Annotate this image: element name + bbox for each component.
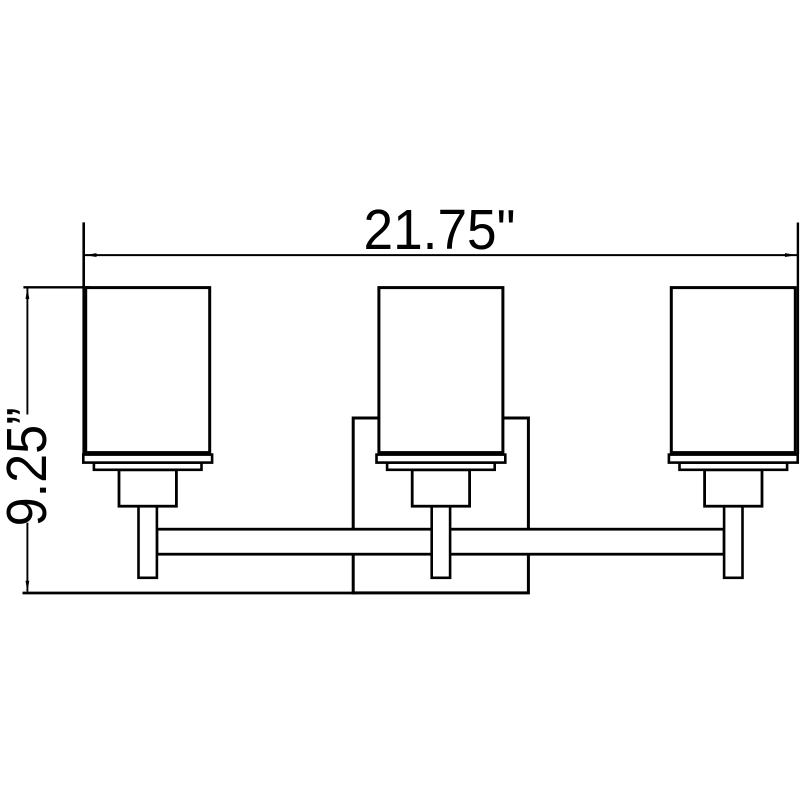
socket cup center [412, 470, 469, 506]
stem center [432, 506, 450, 578]
socket cup right [705, 470, 762, 506]
height dimension line upper segment [26, 289, 28, 415]
svg-text:21.75": 21.75" [364, 198, 516, 262]
width dimension extension line right [797, 223, 799, 455]
shade holder ring upper left [83, 455, 212, 463]
height dimension arrowhead top [26, 288, 30, 299]
height dimension line lower segment [26, 523, 28, 592]
glass shade center [379, 288, 503, 453]
shade holder ring upper right [669, 455, 798, 463]
shade holder ring lower right [680, 463, 788, 470]
backplate (wall mount plate) [353, 418, 528, 593]
socket cup left [119, 470, 176, 506]
stem left [139, 506, 157, 578]
glass shade left [86, 288, 210, 453]
crossbar arm [157, 529, 724, 554]
stem right [724, 506, 742, 578]
glass shade right [671, 288, 795, 453]
height dimension extension line bottom [23, 592, 357, 595]
shade holder ring upper center [377, 455, 506, 463]
height dimension extension line top [23, 286, 90, 288]
shade holder ring lower left [94, 463, 202, 470]
width dimension line [85, 254, 797, 256]
width dimension extension line left [82, 222, 85, 454]
height dimension arrowhead bottom [26, 581, 30, 592]
shade holder ring lower center [387, 463, 495, 470]
width dimension arrowhead right [785, 253, 797, 257]
svg-text:9.25”: 9.25” [0, 407, 59, 526]
width dimension arrowhead left [85, 253, 97, 257]
